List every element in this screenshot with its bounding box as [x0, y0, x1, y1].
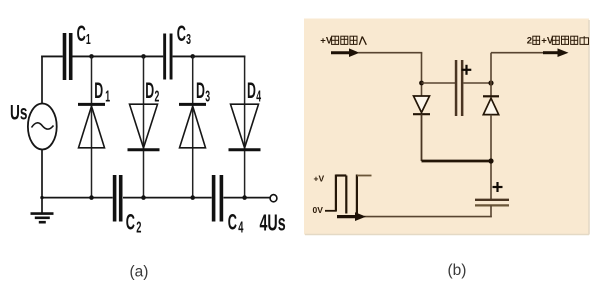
- node bottom link: [488, 158, 493, 163]
- wire capacitor right plate to right branch: [463, 82, 491, 84]
- pulse waveform top 2: [357, 175, 372, 177]
- svg-text:C: C: [228, 210, 237, 234]
- svg-text:0V: 0V: [313, 205, 324, 215]
- output label CJK glyph 2: [552, 36, 559, 44]
- svg-text:4: 4: [238, 218, 244, 236]
- input label CJK glyph 4: [359, 37, 366, 45]
- panel background: [304, 19, 589, 235]
- pulse waveform rising edge 1: [335, 175, 337, 211]
- capacitor C4 plates: [212, 175, 216, 222]
- diode D3: [179, 103, 206, 106]
- input arrow: [331, 51, 350, 54]
- wire right branch vertical lower: [490, 115, 492, 200]
- wire right branch vertical upper: [490, 53, 492, 97]
- svg-text:D: D: [94, 78, 103, 103]
- node bottom D3: [190, 195, 195, 200]
- diode D(b1) left: [414, 96, 430, 113]
- wire input to left branch: [358, 52, 422, 54]
- output label CJK glyph 5: [580, 36, 589, 44]
- capacitor C3 plates: [163, 34, 166, 80]
- pulse arrow: [337, 215, 356, 218]
- svg-text:D: D: [247, 78, 256, 103]
- svg-text:4Us: 4Us: [260, 211, 286, 236]
- wire bottom rail segment 1: [42, 197, 113, 199]
- wire vertical D1 branch: [91, 56, 93, 197]
- svg-text:2: 2: [155, 88, 160, 105]
- node top D2: [141, 54, 146, 59]
- diode D(b2) right: [483, 95, 499, 97]
- wire vertical D3 branch: [192, 56, 194, 197]
- svg-text:D: D: [196, 78, 205, 103]
- capacitor C(b2) polarity +: [493, 186, 503, 188]
- wire top rail left segment: [41, 55, 63, 57]
- diode D4: [231, 104, 259, 148]
- svg-text:1: 1: [86, 31, 91, 48]
- node top D3: [190, 54, 195, 59]
- capacitor C1 plates: [63, 33, 67, 80]
- output label CJK glyph 1: [533, 36, 540, 44]
- diode D1: [78, 103, 105, 106]
- wire left rail upper (source top): [41, 56, 43, 105]
- node bottom ground junction: [40, 196, 43, 199]
- wire node to capacitor left plate: [422, 82, 456, 84]
- output terminal circle: [270, 195, 277, 202]
- svg-text:3: 3: [205, 88, 210, 105]
- svg-text:4: 4: [256, 88, 261, 105]
- pulse waveform rising edge 2: [356, 175, 358, 215]
- wire vertical D4 branch: [244, 56, 246, 197]
- output label CJK glyph 3: [562, 36, 569, 44]
- svg-text:2: 2: [527, 36, 532, 47]
- input label CJK glyph 2: [341, 36, 348, 44]
- svg-text:Us: Us: [10, 101, 28, 125]
- wire left rail lower (source bottom): [41, 149, 43, 199]
- pulse waveform 0V lead: [325, 210, 337, 212]
- wire thick bottom link: [422, 160, 492, 163]
- svg-text:(a): (a): [130, 264, 149, 281]
- pulse waveform falling edge 1: [345, 176, 347, 214]
- node right branch upper: [488, 80, 493, 85]
- svg-text:C: C: [126, 210, 135, 234]
- output label CJK glyph 4: [571, 36, 578, 44]
- node top D1: [89, 54, 94, 59]
- svg-text:D: D: [145, 78, 154, 103]
- diode D2: [130, 104, 158, 148]
- node bottom D2: [141, 195, 146, 200]
- svg-text:+V: +V: [314, 174, 325, 184]
- wire left branch vertical upper: [421, 53, 423, 96]
- svg-text:C: C: [177, 21, 186, 45]
- wire top rail right segment: [173, 55, 246, 57]
- svg-text:(b): (b): [448, 262, 467, 279]
- svg-text:1: 1: [105, 88, 110, 105]
- wire bottom rail: [364, 216, 492, 218]
- svg-text:2: 2: [136, 218, 141, 236]
- wire vertical D2 branch: [143, 56, 145, 197]
- svg-text:+V: +V: [320, 36, 333, 47]
- wire capacitor to bottom rail: [490, 205, 492, 217]
- node bottom D4: [242, 195, 247, 200]
- input label CJK glyph 3: [350, 36, 357, 44]
- wire right branch to output: [491, 52, 545, 54]
- capacitor C(b2) plates: [475, 199, 509, 201]
- capacitor C(b1) polarity +: [462, 69, 472, 71]
- wire bottom rail segment 2: [123, 197, 212, 199]
- wire left branch vertical lower: [421, 114, 423, 161]
- svg-text:3: 3: [186, 31, 191, 48]
- wire top rail middle segment: [72, 55, 163, 57]
- node left branch: [419, 81, 424, 86]
- svg-text:C: C: [77, 21, 86, 45]
- capacitor C2 plates: [113, 175, 117, 222]
- ground: [41, 198, 43, 213]
- capacitor C(b1) plates: [455, 60, 458, 116]
- source Us symbol: [28, 104, 57, 150]
- input label CJK glyph 1: [332, 36, 339, 44]
- pulse waveform top 1: [336, 174, 346, 176]
- wire bottom rail segment 3: [223, 197, 270, 199]
- node bottom D1: [89, 195, 94, 200]
- output arrow: [543, 51, 558, 54]
